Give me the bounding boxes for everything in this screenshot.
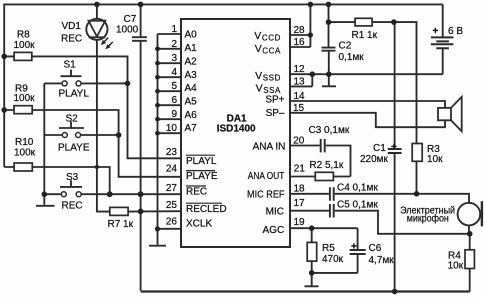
svg-text:6: 6 xyxy=(171,95,177,106)
svg-text:AGC: AGC xyxy=(263,225,285,236)
svg-text:12: 12 xyxy=(294,64,306,75)
svg-text:100к: 100к xyxy=(14,40,36,51)
svg-text:XCLK: XCLK xyxy=(186,219,212,230)
svg-text:R10: R10 xyxy=(15,137,34,148)
svg-text:24: 24 xyxy=(166,163,178,174)
svg-text:220мк: 220мк xyxy=(360,154,389,165)
svg-text:27: 27 xyxy=(166,183,178,194)
svg-text:A4: A4 xyxy=(185,83,198,94)
svg-text:+: + xyxy=(433,26,439,37)
svg-text:3: 3 xyxy=(171,53,177,64)
svg-text:ANA OUT: ANA OUT xyxy=(248,171,285,182)
svg-text:S1: S1 xyxy=(64,60,77,71)
svg-text:A3: A3 xyxy=(185,70,198,81)
svg-text:18: 18 xyxy=(294,184,306,195)
svg-text:1000: 1000 xyxy=(116,25,139,36)
svg-text:SP–: SP– xyxy=(266,108,285,119)
svg-text:20: 20 xyxy=(293,135,305,146)
svg-text:C5 0,1мк: C5 0,1мк xyxy=(337,200,378,211)
svg-text:100к: 100к xyxy=(14,93,36,104)
svg-text:15: 15 xyxy=(293,103,305,114)
svg-text:17: 17 xyxy=(294,198,306,209)
svg-text:R7 1к: R7 1к xyxy=(108,219,134,230)
svg-text:C4 0,1мк: C4 0,1мк xyxy=(337,183,378,194)
svg-text:26: 26 xyxy=(166,217,178,228)
svg-text:4: 4 xyxy=(171,67,177,78)
svg-text:S3: S3 xyxy=(66,172,79,183)
svg-text:16: 16 xyxy=(294,37,306,48)
svg-text:REC: REC xyxy=(186,187,207,198)
svg-text:+: + xyxy=(391,142,397,153)
svg-text:10к: 10к xyxy=(427,154,443,165)
svg-text:10: 10 xyxy=(166,123,178,134)
svg-text:A2: A2 xyxy=(185,56,198,67)
svg-text:A1: A1 xyxy=(185,43,198,54)
svg-text:ANA IN: ANA IN xyxy=(253,142,286,153)
svg-text:PLAYE: PLAYE xyxy=(58,143,90,154)
svg-text:REC: REC xyxy=(61,34,82,45)
svg-text:PLAYE: PLAYE xyxy=(186,171,218,182)
svg-text:470к: 470к xyxy=(322,254,344,265)
svg-text:RECLED: RECLED xyxy=(186,204,227,215)
svg-text:A7: A7 xyxy=(185,123,198,134)
svg-text:REC: REC xyxy=(62,201,83,212)
svg-text:100к: 100к xyxy=(14,148,36,159)
svg-text:PLAYL: PLAYL xyxy=(59,89,90,100)
svg-text:VD1: VD1 xyxy=(62,21,82,32)
svg-text:25: 25 xyxy=(166,200,178,211)
svg-text:MIC REF: MIC REF xyxy=(247,189,285,200)
svg-text:1: 1 xyxy=(171,24,177,35)
svg-text:A6: A6 xyxy=(185,110,198,121)
svg-text:2: 2 xyxy=(171,39,177,50)
svg-text:19: 19 xyxy=(294,217,306,228)
svg-text:C7: C7 xyxy=(124,14,137,25)
svg-text:0,1мк: 0,1мк xyxy=(339,52,365,63)
svg-text:микрофон: микрофон xyxy=(407,212,449,224)
svg-text:ISD1400: ISD1400 xyxy=(217,124,256,135)
svg-text:R8: R8 xyxy=(17,30,30,41)
svg-text:23: 23 xyxy=(166,147,178,158)
svg-text:28: 28 xyxy=(294,25,306,36)
svg-text:A5: A5 xyxy=(185,96,198,107)
svg-text:PLAYL: PLAYL xyxy=(186,156,217,167)
svg-text:+: + xyxy=(351,242,357,253)
svg-text:C3 0,1мк: C3 0,1мк xyxy=(309,125,350,136)
svg-text:R5: R5 xyxy=(322,243,335,254)
svg-text:C1: C1 xyxy=(373,143,386,154)
svg-text:4,7мк: 4,7мк xyxy=(369,255,395,266)
svg-text:14: 14 xyxy=(294,91,306,102)
svg-text:5: 5 xyxy=(171,81,177,92)
svg-text:9: 9 xyxy=(171,109,177,120)
svg-text:R1 1к: R1 1к xyxy=(352,30,378,41)
svg-text:6 В: 6 В xyxy=(448,26,463,37)
svg-text:SP+: SP+ xyxy=(265,95,284,106)
svg-text:21: 21 xyxy=(294,164,306,175)
svg-text:R2 5,1к: R2 5,1к xyxy=(309,160,343,171)
svg-text:C6: C6 xyxy=(369,243,382,254)
svg-text:10к: 10к xyxy=(448,261,464,272)
svg-text:S2: S2 xyxy=(66,114,79,125)
svg-text:13: 13 xyxy=(294,76,306,87)
svg-text:A0: A0 xyxy=(185,30,198,41)
svg-text:C2: C2 xyxy=(339,41,352,52)
svg-text:MIC: MIC xyxy=(266,206,284,217)
